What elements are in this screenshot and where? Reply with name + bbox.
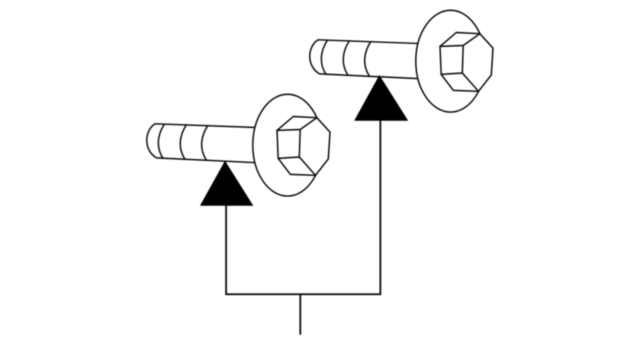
arrow marker 2 (black triangle pointing at bolt B2) — [355, 76, 407, 120]
bolt B1 (lower left flange hex bolt) — [147, 94, 330, 196]
leader line from marker 1 down — [225, 205, 227, 294]
arrow marker 1 (black triangle pointing at bolt B1) — [201, 162, 253, 206]
leader line from marker 2 down — [379, 120, 381, 294]
bolt B2 (upper right flange hex bolt) — [310, 10, 493, 112]
horizontal connector line — [225, 293, 381, 295]
center callout stem — [299, 294, 301, 335]
